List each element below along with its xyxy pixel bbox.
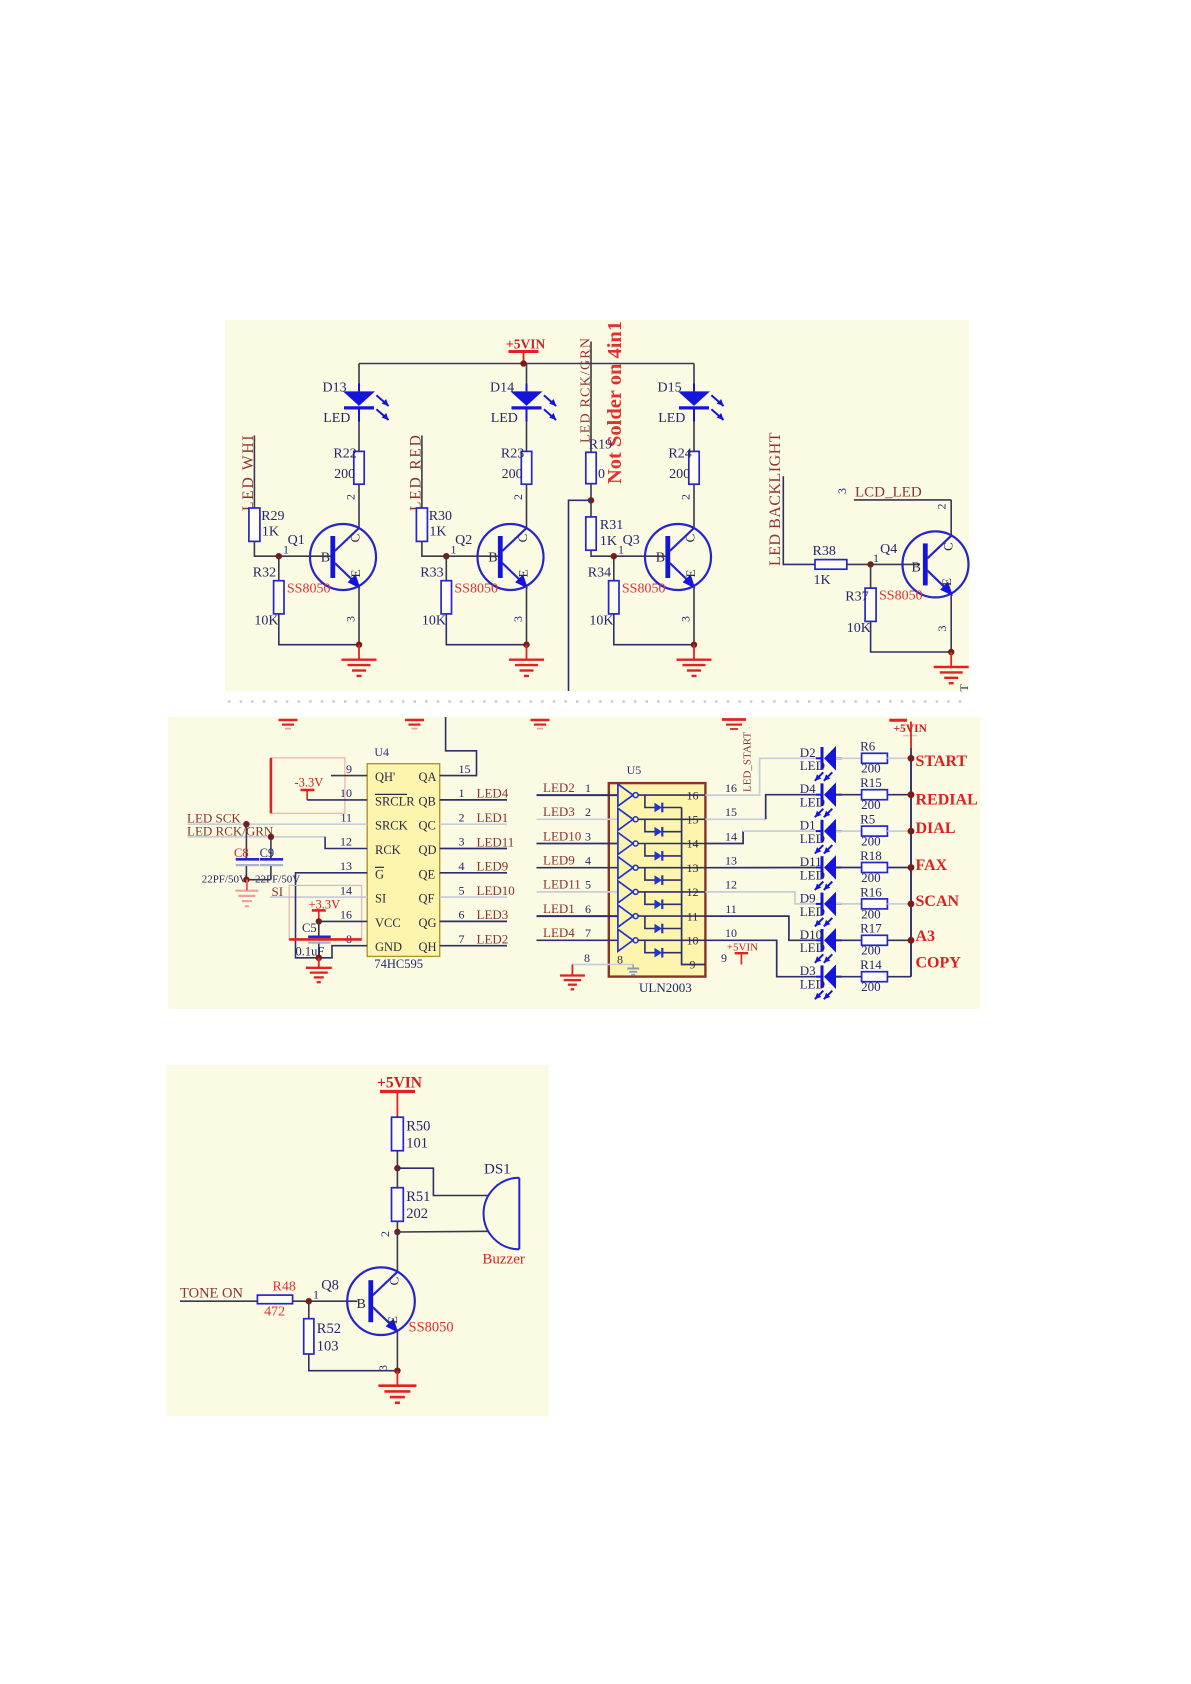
svg-text:3: 3 (835, 488, 849, 494)
junction at emitter/ground (523, 642, 529, 648)
svg-text:Q8: Q8 (321, 1278, 339, 1294)
svg-text:1: 1 (873, 551, 879, 565)
svg-text:1: 1 (618, 543, 624, 557)
resistor R22 200 (354, 451, 364, 484)
clamp diode 4 (U5 internal) (645, 868, 655, 880)
svg-text:Buzzer: Buzzer (482, 1252, 524, 1268)
svg-text:6: 6 (585, 902, 591, 916)
svg-text:B: B (488, 551, 497, 566)
svg-text:SS8050: SS8050 (879, 589, 923, 604)
svg-text:C: C (682, 534, 697, 543)
svg-text:1: 1 (451, 543, 457, 557)
svg-text:200: 200 (502, 467, 523, 482)
wire D14 to R23 (526, 422, 528, 451)
wire LED3 stub (U4 pin 6) (440, 920, 507, 922)
svg-text:R37: R37 (845, 590, 868, 605)
svg-text:Q1: Q1 (288, 533, 305, 548)
junction at base (611, 553, 617, 559)
svg-text:QE: QE (419, 867, 436, 881)
wire LED RCK/GRN to R19 (590, 342, 592, 453)
wire rail to D15 (693, 364, 695, 386)
wire D11 to R18 (836, 867, 862, 869)
svg-text:LED3: LED3 (543, 804, 575, 819)
svg-text:C9: C9 (260, 846, 275, 860)
svg-text:11: 11 (725, 902, 737, 916)
wire R37 to emitter node (871, 621, 952, 652)
svg-text:R16: R16 (860, 884, 882, 899)
wire +5VIN to bus (910, 722, 912, 749)
panel 1 background (LED driver transistors) (225, 320, 969, 691)
ground (faded) (246, 880, 248, 891)
svg-text:VCC: VCC (375, 916, 401, 930)
junction VCC / C5 (316, 918, 322, 924)
resistor R18 200 (862, 863, 888, 873)
svg-text:472: 472 (264, 1305, 285, 1320)
transistor Q1 SS8050 (310, 524, 376, 590)
wire R30 to base (422, 541, 498, 556)
wire LED WHI to R29 (253, 436, 255, 509)
resistor R17 200 (862, 935, 888, 945)
svg-text:1K: 1K (262, 525, 279, 540)
wire TONE ON to R48 (180, 1300, 257, 1302)
ground (950, 652, 952, 667)
svg-text:QB: QB (419, 794, 436, 808)
resistor R34 10K (613, 556, 615, 581)
svg-text:5: 5 (585, 878, 591, 892)
svg-text:3: 3 (511, 616, 525, 622)
svg-text:G: G (375, 867, 384, 881)
svg-text:Q3: Q3 (623, 533, 640, 548)
svg-text:10K: 10K (254, 614, 278, 629)
clamp diode 7 (U5 internal) (645, 940, 655, 952)
wire U5 pin14 to D1 row (705, 831, 743, 843)
wire R18 to bus (887, 867, 911, 869)
svg-text:QH': QH' (375, 770, 395, 784)
transistor Q2 SS8050 (478, 524, 544, 590)
wire emitter down (358, 586, 360, 645)
svg-text:10: 10 (687, 934, 699, 948)
svg-text:E: E (939, 578, 954, 586)
svg-text:SRCK: SRCK (375, 819, 408, 833)
svg-text:E: E (683, 569, 698, 577)
ground (cut at panel top) (405, 719, 424, 722)
svg-text:10: 10 (725, 926, 737, 940)
junction START (908, 755, 915, 762)
svg-text:R38: R38 (813, 544, 836, 559)
svg-text:SS8050: SS8050 (454, 582, 498, 597)
svg-text:SS8050: SS8050 (409, 1320, 454, 1336)
svg-text:T: T (957, 684, 971, 692)
svg-text:R22: R22 (333, 447, 356, 462)
capacitor C9 22PF/50V (270, 837, 272, 858)
svg-text:10K: 10K (847, 621, 871, 636)
wire LED1 stub (U4 pin 2) (440, 823, 507, 825)
svg-text:LED2: LED2 (543, 780, 575, 795)
svg-text:16: 16 (687, 788, 699, 802)
svg-text:D14: D14 (490, 381, 514, 396)
svg-text:7: 7 (585, 926, 591, 940)
wire LCD_LED to Q4 collector (854, 499, 951, 501)
junction Q4 emitter/ground (948, 649, 954, 655)
junction base Q8 (306, 1298, 312, 1304)
svg-text:3: 3 (376, 1365, 390, 1371)
svg-text:2: 2 (344, 494, 358, 500)
wire R38 to base junction (847, 563, 920, 565)
junction DIAL (908, 828, 915, 835)
svg-text:LED9: LED9 (477, 859, 509, 874)
LED D1 (816, 830, 822, 832)
svg-text:R24: R24 (668, 447, 691, 462)
svg-text:R6: R6 (860, 739, 876, 754)
wire node2 to Q8 collector (396, 1232, 398, 1272)
wire R22 to Q1 collector (358, 484, 360, 528)
junction at base (276, 553, 282, 559)
svg-text:QG: QG (419, 916, 437, 930)
wire R17 to bus (887, 939, 911, 941)
clamp diode 2 (U5 internal) (645, 819, 655, 831)
wire LED2 to U5 pin 1 (537, 794, 618, 796)
svg-text:200: 200 (861, 834, 881, 849)
svg-text:200: 200 (861, 797, 881, 812)
svg-text:9: 9 (690, 958, 696, 972)
ground (396, 1371, 398, 1386)
wire caps to ground (246, 879, 271, 881)
wire LED BACKLIGHT to R38 (783, 476, 815, 564)
svg-text:12: 12 (687, 885, 699, 899)
wire R31 to base (591, 550, 666, 556)
svg-text:R34: R34 (588, 566, 611, 581)
resistor R23 200 (521, 451, 531, 484)
wire G pin 13 to gnd net (296, 873, 368, 958)
wire D13 to R22 (358, 422, 360, 451)
svg-text:1: 1 (313, 1287, 319, 1301)
svg-text:LED: LED (800, 831, 825, 846)
svg-text:C: C (940, 542, 955, 551)
junction node 2 (394, 1229, 400, 1235)
svg-text:3: 3 (935, 626, 949, 632)
svg-text:LED BACKLIGHT: LED BACKLIGHT (767, 432, 784, 566)
svg-text:10: 10 (340, 786, 352, 800)
svg-text:R51: R51 (406, 1189, 430, 1205)
svg-text:LED_START: LED_START (742, 732, 754, 792)
svg-text:E: E (515, 569, 530, 577)
svg-text:14: 14 (725, 829, 737, 843)
svg-text:DIAL: DIAL (916, 820, 956, 837)
wire D15 to R24 (693, 422, 695, 451)
wire +5V rail (359, 363, 694, 365)
clamp diode 5 (U5 internal) (645, 892, 655, 904)
junction C5/GND (316, 955, 322, 961)
LED D14 (526, 383, 528, 391)
driver 5 (U5 internal) (618, 881, 633, 903)
panel 2 background (74HC595 / ULN2003) (168, 717, 980, 1009)
svg-text:101: 101 (406, 1136, 428, 1152)
svg-text:LED: LED (491, 411, 518, 426)
svg-text:B: B (656, 551, 665, 566)
wire -3.3V to SRCLR pin 10 (306, 790, 308, 800)
svg-text:9: 9 (346, 762, 352, 776)
svg-text:12: 12 (725, 878, 737, 892)
svg-text:R18: R18 (860, 848, 882, 863)
svg-text:13: 13 (687, 861, 699, 875)
junction A3 (908, 937, 915, 944)
wire R34 to emitter node (614, 614, 694, 645)
svg-text:15: 15 (459, 762, 471, 776)
IC U5 ULN2003 body (609, 783, 706, 977)
junction SCAN (908, 901, 915, 908)
svg-text:6: 6 (459, 908, 465, 922)
svg-text:8: 8 (584, 951, 590, 965)
svg-text:13: 13 (725, 854, 737, 868)
wire LED9 to U5 pin 4 (537, 867, 618, 869)
LED D10 (816, 939, 822, 941)
wire R29 to base (254, 541, 330, 556)
svg-text:R5: R5 (860, 812, 875, 827)
svg-text:200: 200 (861, 761, 881, 776)
ground (cut at panel top) (279, 719, 298, 722)
junction on +5V rail (520, 360, 526, 366)
svg-text:1K: 1K (814, 573, 831, 588)
svg-text:B: B (357, 1297, 366, 1312)
driver 4 (U5 internal) (618, 857, 633, 879)
svg-text:R50: R50 (406, 1119, 430, 1135)
svg-text:QD: QD (419, 843, 437, 857)
power symbol +5VIN (LED bus) (889, 719, 907, 722)
svg-text:13: 13 (340, 859, 352, 873)
U5 internal ground (632, 965, 634, 969)
junction caps ground (243, 877, 249, 883)
wire R5 to bus (887, 830, 911, 832)
svg-text:+5VIN: +5VIN (377, 1075, 422, 1092)
svg-text:D13: D13 (323, 381, 347, 396)
wire node 2 to buzzer bottom (397, 1230, 488, 1233)
wire LED11 stub (U4 pin 3) (440, 848, 507, 850)
transistor Q3 SS8050 (645, 524, 711, 590)
svg-text:2: 2 (585, 805, 591, 819)
wire D1 to R5 (836, 830, 862, 832)
resistor R33 10K (445, 556, 447, 581)
ground at U5 pin 8 (571, 965, 573, 976)
capacitor C8 22PF/50V (245, 824, 247, 858)
svg-text:FAX: FAX (916, 857, 948, 874)
svg-text:LED4: LED4 (543, 925, 575, 940)
svg-text:C8: C8 (234, 846, 249, 860)
svg-text:+5VIN: +5VIN (727, 942, 758, 954)
resistor R19 0 ohm (586, 452, 596, 483)
svg-text:Not Solder on 4in1: Not Solder on 4in1 (604, 321, 626, 484)
wire R16 to bus (887, 903, 911, 905)
svg-text:LED: LED (323, 411, 350, 426)
wire pin 9 stub (331, 775, 367, 777)
LED D11 (816, 867, 822, 869)
wire QA pin 15 from panel top (440, 717, 477, 776)
resistor R30 1K (416, 508, 427, 541)
svg-text:QA: QA (419, 770, 437, 784)
svg-text:LED: LED (800, 795, 825, 810)
wire R19 to junction (590, 484, 592, 501)
svg-text:1: 1 (459, 786, 465, 800)
svg-text:R14: R14 (860, 957, 882, 972)
wire LED RCK/GRN to RCK pin 12 (188, 836, 326, 838)
svg-text:LED: LED (658, 411, 685, 426)
svg-text:200: 200 (334, 467, 355, 482)
svg-text:R19: R19 (589, 437, 612, 452)
svg-text:1: 1 (585, 781, 591, 795)
svg-text:SCAN: SCAN (916, 893, 960, 910)
ground (693, 645, 695, 660)
resistor R51 202 (396, 1168, 398, 1188)
svg-text:12: 12 (340, 835, 352, 849)
svg-text:8: 8 (617, 953, 623, 967)
svg-text:15: 15 (687, 813, 699, 827)
U5 pin 8 wire (572, 964, 609, 966)
resistor R50 101 (392, 1117, 404, 1151)
LED D9 (816, 903, 822, 905)
wire LED10 stub (U4 pin 5) (440, 896, 507, 898)
svg-text:SRCLR: SRCLR (375, 794, 415, 808)
svg-text:3: 3 (344, 616, 358, 622)
wire D9 to R16 (836, 903, 862, 905)
LED D2 (816, 757, 822, 759)
svg-text:A3: A3 (916, 928, 936, 945)
svg-text:QC: QC (419, 819, 436, 833)
U5 COM rail (internal) (682, 808, 706, 965)
junction R19/R31 (588, 497, 594, 503)
wire D10 to R17 (836, 939, 862, 941)
resistor R6 200 (862, 753, 888, 763)
wire U5 pin11 to D10 row (705, 916, 815, 940)
svg-text:R17: R17 (860, 921, 882, 936)
resistor R38 1K (815, 560, 847, 570)
svg-text:Q4: Q4 (880, 542, 897, 557)
capacitor C5 0.1uF (318, 921, 320, 935)
svg-text:11: 11 (340, 810, 352, 824)
svg-text:200: 200 (861, 943, 881, 958)
wire LED RED to R30 (421, 436, 423, 509)
svg-text:2: 2 (378, 1231, 392, 1237)
wire R23 to Q2 collector (526, 484, 528, 528)
resistor R29 1K (249, 508, 260, 541)
clamp diode 3 (U5 internal) (645, 844, 655, 856)
svg-text:R15: R15 (860, 775, 882, 790)
svg-text:4: 4 (459, 859, 465, 873)
svg-text:R29: R29 (261, 509, 284, 524)
svg-text:E: E (385, 1316, 400, 1324)
svg-text:SI: SI (375, 892, 386, 906)
svg-text:QH: QH (419, 940, 437, 954)
svg-text:B: B (912, 561, 921, 576)
junction LED SCK / C8 (243, 821, 249, 827)
svg-text:LED: LED (800, 977, 825, 992)
wire R51 to node 2 (396, 1221, 398, 1232)
svg-text:200: 200 (861, 979, 881, 994)
svg-text:DS1: DS1 (484, 1162, 511, 1178)
wire LED9 stub (U4 pin 4) (440, 872, 507, 874)
resistor R32 10K (278, 556, 280, 581)
wire R24 to Q3 collector (693, 484, 695, 528)
driver 6 (U5 internal) (618, 905, 633, 927)
LED D3 (816, 976, 822, 978)
svg-text:0: 0 (598, 467, 605, 482)
LED D4 (816, 794, 822, 796)
resistor R37 10K (870, 564, 872, 588)
wire junction to buzzer top (397, 1168, 488, 1195)
svg-text:SS8050: SS8050 (622, 582, 666, 597)
wire Q4 emitter down (950, 594, 952, 653)
wire R14 to bus (887, 976, 911, 978)
wire Q8 emitter down (396, 1331, 398, 1371)
svg-text:LED1: LED1 (543, 901, 575, 916)
svg-text:RCK: RCK (375, 843, 401, 857)
svg-text:7: 7 (459, 932, 465, 946)
svg-text:LED1: LED1 (477, 810, 509, 825)
wire R15 to bus (887, 794, 911, 796)
junction FAX (908, 864, 915, 871)
svg-text:3: 3 (585, 829, 591, 843)
resistor R52 103 (308, 1301, 310, 1319)
svg-text:LED11: LED11 (543, 877, 581, 892)
ground (358, 645, 360, 660)
svg-text:SS8050: SS8050 (287, 582, 331, 597)
red selection box around -3.3V (271, 758, 345, 813)
svg-text:START: START (916, 753, 968, 770)
clamp diode 1 (U5 internal) (645, 795, 655, 807)
wire U5 pin16 to D2 row (705, 758, 815, 795)
svg-text:103: 103 (317, 1339, 339, 1355)
wire rail to D14 (526, 364, 528, 386)
svg-text:LED2: LED2 (477, 932, 509, 947)
svg-text:C: C (347, 534, 362, 543)
svg-text:2: 2 (935, 504, 949, 510)
wire R52 to emitter node (309, 1354, 398, 1371)
svg-text:QF: QF (419, 892, 435, 906)
svg-text:74HC595: 74HC595 (374, 957, 423, 971)
dashed separator line under panel 1 (228, 700, 966, 702)
wire LED10 to U5 pin 3 (537, 843, 618, 845)
svg-text:2: 2 (511, 494, 525, 500)
wire U5 pin10 to D3 row (705, 940, 815, 976)
svg-text:1: 1 (283, 543, 289, 557)
svg-text:+5VIN: +5VIN (506, 337, 545, 352)
driver 7 (U5 internal) (618, 929, 633, 951)
resistor R24 200 (689, 451, 699, 484)
svg-text:LED10: LED10 (477, 883, 515, 898)
wire U5 pin15 to D4 row (705, 818, 765, 820)
svg-text:200: 200 (861, 906, 881, 921)
junction emitter/ground (394, 1368, 400, 1374)
panel 3 background (buzzer driver) (166, 1065, 549, 1416)
svg-text:LED: LED (800, 758, 825, 773)
svg-text:ULN2003: ULN2003 (639, 980, 692, 995)
svg-text:LED3: LED3 (477, 907, 509, 922)
svg-text:3: 3 (679, 616, 693, 622)
junction at base (443, 553, 449, 559)
clamp diode 6 (U5 internal) (645, 916, 655, 928)
wire D2 to R6 (836, 757, 862, 759)
ground (318, 958, 320, 968)
svg-text:LCD_LED: LCD_LED (855, 485, 922, 501)
wire LED11 to U5 pin 5 (537, 891, 618, 893)
svg-text:R33: R33 (420, 566, 443, 581)
junction LED RCK/GRN / C9 (268, 834, 274, 840)
svg-text:15: 15 (725, 805, 737, 819)
svg-text:2: 2 (459, 810, 465, 824)
IC U4 74HC595 body (367, 764, 440, 957)
svg-text:10K: 10K (422, 614, 446, 629)
svg-text:LED4: LED4 (477, 786, 509, 801)
wire R50 to junction (396, 1151, 398, 1169)
wire R48 to base junction (293, 1300, 358, 1302)
